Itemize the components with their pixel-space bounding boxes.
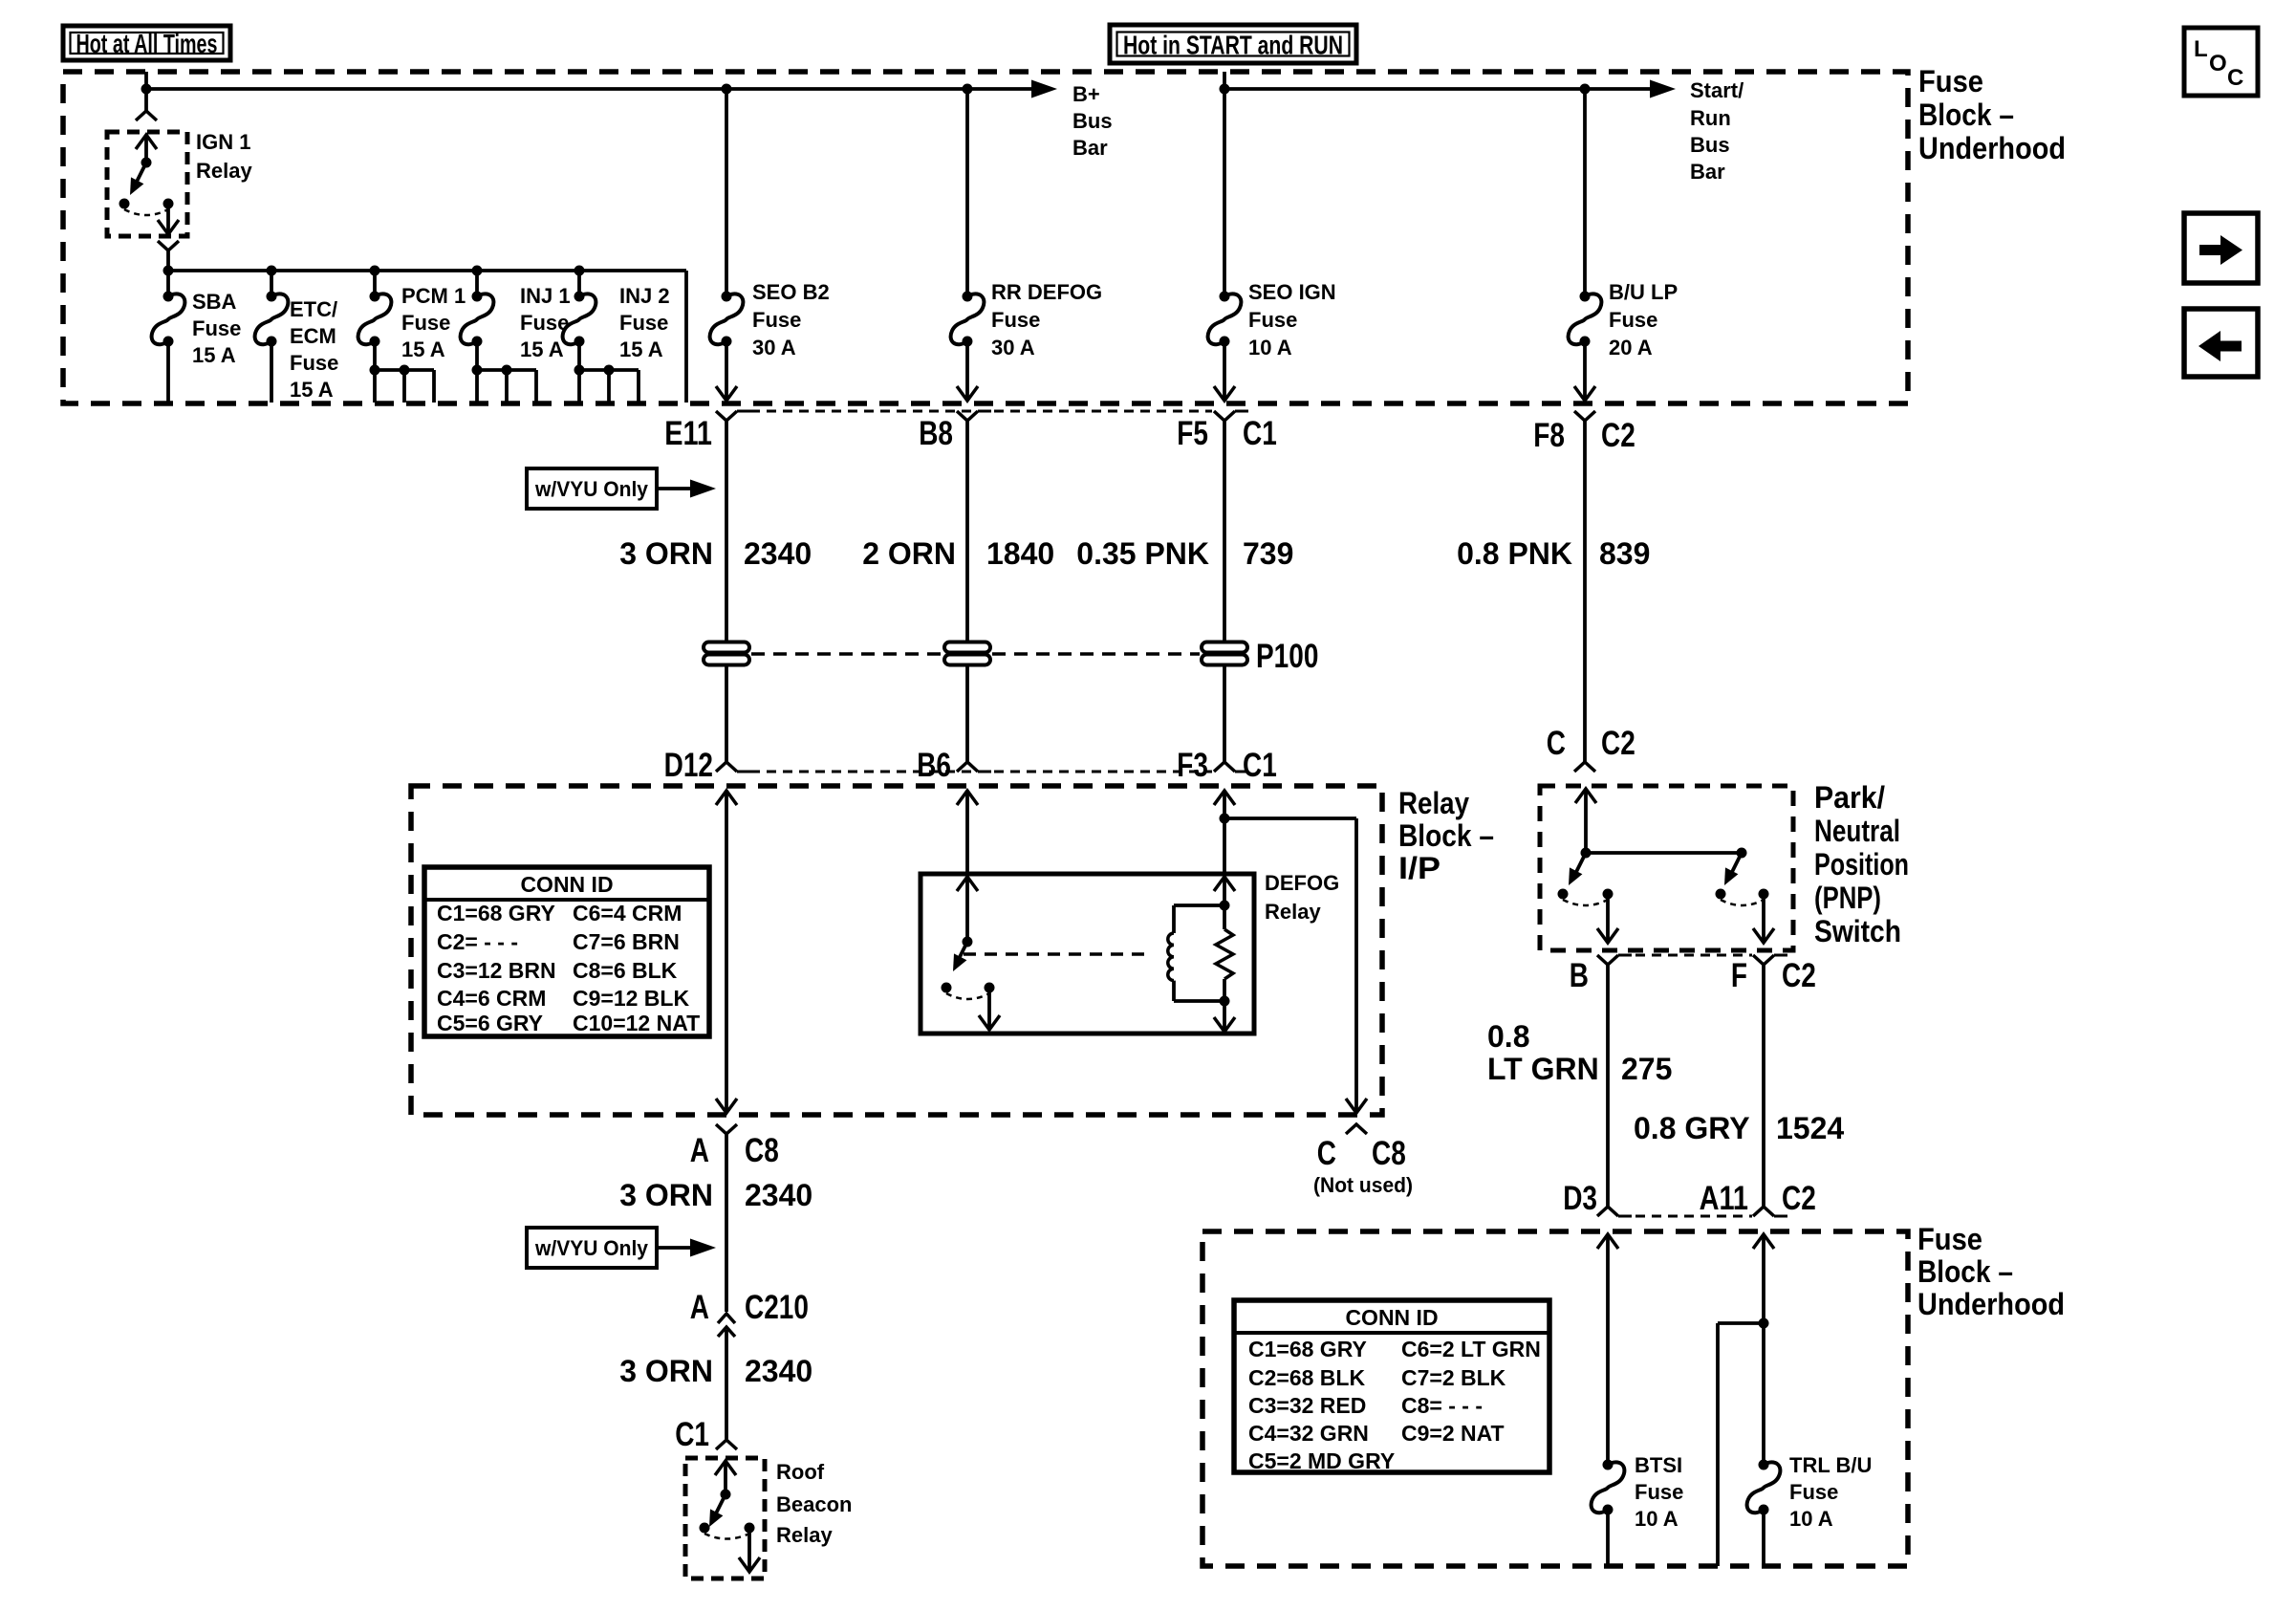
wire: SEO B2 fuse feed [725,89,728,296]
arrow: B+ bus bar end [1031,80,1057,98]
conn C210 inline (double chevron) [718,1314,735,1337]
wire: RR DEFOG fuse output [957,341,978,401]
svg-text:INJ 2: INJ 2 [619,284,670,308]
svg-text:0.8: 0.8 [1487,1019,1529,1054]
svg-text:Position: Position [1814,847,1909,882]
wire: PCM 1 fuse feed [373,271,377,296]
connector face dashed line (D3/A11) [1619,1215,1752,1218]
svg-text:C: C [1317,1135,1336,1172]
svg-text:Fuse: Fuse [991,308,1040,332]
label: Relay Block - I/P [1398,786,1494,885]
svg-text:SBA: SBA [192,290,237,314]
PNP left output [1597,894,1618,943]
wire: 739 to DEFOG relay [1223,791,1226,872]
label: ETC/ECM fuse [290,297,338,402]
svg-text:Relay: Relay [1398,786,1469,820]
wire: SEO B2 fuse output [716,341,737,401]
svg-text:ECM: ECM [290,324,336,348]
svg-text:BTSI: BTSI [1635,1453,1682,1477]
DEFOG switch pivot [963,937,973,947]
svg-text:C4=6 CRM: C4=6 CRM [437,986,546,1011]
wire: 1524 to TRL B/U fuse [1762,1234,1765,1465]
svg-text:Beacon: Beacon [776,1492,852,1516]
wire: branch to C C8 [1224,818,1356,1112]
wire: small fuse bus [168,271,686,403]
fuse SEO IGN 10 A [1208,292,1242,347]
svg-text:Hot at All Times: Hot at All Times [76,29,218,58]
wire: B/U LP fuse output [1574,341,1595,401]
grommet dashed link [751,652,1200,656]
svg-text:ETC/: ETC/ [290,297,337,321]
svg-text:Relay: Relay [776,1523,833,1547]
table: CONN ID (fuse block) [1234,1300,1549,1473]
svg-text:Fuse: Fuse [1917,1222,1982,1256]
label: PCM 1 fuse [401,284,466,361]
svg-text:F3: F3 [1177,747,1208,784]
label: Start/Run Bus Bar [1690,78,1744,184]
svg-text:15 A: 15 A [520,337,564,361]
svg-text:A11: A11 [1700,1180,1748,1217]
svg-text:Fuse: Fuse [752,308,801,332]
svg-text:Roof: Roof [776,1460,825,1484]
svg-text:CONN ID: CONN ID [520,872,613,897]
wire: 2340 through relay block [725,791,728,1112]
svg-text:275: 275 [1621,1052,1672,1086]
node: bus tap INJ 2 [574,266,585,276]
wire: BTSI fuse output [1606,1510,1610,1566]
label: DEFOG Relay [1265,871,1339,924]
label: B/U LP fuse [1609,280,1678,359]
svg-text:B6: B6 [917,747,951,784]
svg-text:10 A: 10 A [1789,1507,1833,1531]
svg-text:30 A: 30 A [752,336,796,359]
fuse block underhood (top) dashed border [63,72,1908,403]
svg-text:P100: P100 [1256,638,1318,675]
label: SBA fuse [192,290,241,367]
svg-text:Bar: Bar [1072,136,1108,160]
svg-text:Start/: Start/ [1690,78,1744,102]
svg-text:Underhood: Underhood [1917,1287,2065,1321]
svg-text:C2: C2 [1601,725,1635,762]
svg-text:C8=6 BLK: C8=6 BLK [573,958,678,983]
svg-text:C8: C8 [745,1132,779,1169]
label: Roof Beacon Relay [776,1460,852,1547]
connector face dashed line (top row) [750,410,1212,413]
label: 0.8 GRY | 1524 [1634,1111,1844,1145]
label: 0.8 PNK | 839 [1457,536,1650,571]
node: B+ bus junction at relay feed [141,84,152,95]
PNP pivot bar [1581,848,1747,859]
svg-text:3 ORN: 3 ORN [619,1178,713,1212]
label: pin B6 [917,747,951,784]
svg-text:1840: 1840 [986,536,1054,571]
svg-text:O: O [2209,51,2227,76]
svg-text:C5=2 MD GRY: C5=2 MD GRY [1248,1448,1395,1473]
svg-text:Switch: Switch [1814,914,1901,948]
svg-text:E11: E11 [664,415,712,452]
wire: circuit 739 (0.35 PNK) [1223,421,1226,762]
fuse INJ 1 15 A [461,292,494,347]
wire: B/U LP fuse feed [1583,89,1587,296]
label: pin C (C8) [1317,1135,1336,1172]
callout box: w/VYU Only (upper) [527,468,657,509]
label: conn C8 [745,1132,779,1169]
label: pin A11 [1700,1180,1748,1217]
svg-text:Hot in START and RUN: Hot in START and RUN [1123,31,1343,60]
svg-text:SEO B2: SEO B2 [752,280,830,304]
fuse B/U LP 20 A [1569,292,1602,347]
svg-text:C: C [1547,725,1566,762]
label: 3 ORN | 2340 [619,536,812,571]
arrow into DEFOG relay (switch) [957,877,978,942]
svg-text:C1: C1 [1243,415,1277,452]
PNP right output [1753,894,1774,943]
svg-text:839: 839 [1599,536,1650,571]
fuse block underhood (bottom) dashed border [1202,1231,1908,1566]
svg-text:C9=12 BLK: C9=12 BLK [573,986,689,1011]
svg-text:C2=68 BLK: C2=68 BLK [1248,1365,1365,1390]
label: conn C1 (roof beacon) [675,1416,709,1453]
svg-text:Fuse: Fuse [401,311,450,335]
callout box: w/VYU Only (lower) [527,1228,657,1268]
node: coil bottom [1220,996,1230,1007]
svg-text:C210: C210 [745,1289,809,1326]
svg-text:C5=6 GRY: C5=6 GRY [437,1011,543,1035]
node: bus tap PCM 1 [370,266,380,276]
conn F3/C1 male [1214,762,1248,772]
wire: feed from border (START/RUN) [1223,72,1226,296]
svg-text:IGN 1: IGN 1 [196,130,250,154]
svg-text:B8: B8 [919,415,953,452]
label: conn C2 (fuse block) [1782,1180,1816,1217]
roof beacon relay arm [709,1494,726,1527]
grommet P100 on 2340 [704,642,749,665]
label: (Not used) [1313,1173,1413,1197]
node: bus tap B/U LP [1580,84,1591,95]
fuse ETC/ECM 15 A [255,292,289,347]
svg-text:D3: D3 [1563,1180,1597,1217]
arrow into relay block (2340) [716,791,737,805]
fuse PCM 1 15 A [358,292,392,347]
svg-text:A: A [690,1289,709,1326]
wire: INJ 2 fuse feed [577,271,581,296]
svg-text:Fuse: Fuse [1918,64,1983,98]
PNP right switch arm [1724,853,1742,885]
svg-text:10 A: 10 A [1248,336,1292,359]
node: bus tap SEO B2 [722,84,732,95]
svg-text:0.8 GRY: 0.8 GRY [1634,1111,1750,1145]
node: Start/Run bus junction [1220,84,1230,95]
relay IGN 1 dashed box [107,132,187,236]
svg-text:Block –: Block – [1917,1254,2013,1289]
conn: male half below relay feed [136,111,157,120]
arrow into DEFOG relay (coil side) [1214,877,1235,905]
node: bus tap RR DEFOG [963,84,973,95]
fuse SEO B2 30 A [710,292,744,347]
label box: Hot at All Times [63,26,230,60]
wire: TRL B/U fuse output [1762,1510,1765,1566]
DEFOG mechanical link dashed [964,952,1153,956]
wire: INJ 2 fuse output comb [574,341,639,403]
arrow into relay block (1840) [957,791,978,805]
svg-text:F8: F8 [1533,417,1565,454]
svg-text:2340: 2340 [745,1354,812,1388]
arrow into roof beacon relay [715,1461,736,1494]
label: SEO IGN fuse [1248,280,1336,359]
IGN 1 relay switch arm [130,163,146,195]
svg-text:1524: 1524 [1776,1111,1844,1145]
PNP left contacts [1558,889,1614,906]
svg-text:15 A: 15 A [192,343,236,367]
svg-text:C1=68 GRY: C1=68 GRY [437,901,555,925]
label: 0.35 PNK | 739 [1076,536,1293,571]
fuse RR DEFOG 30 A [951,292,985,347]
roof beacon relay output [739,1528,760,1572]
relay block I/P dashed border [411,786,1382,1115]
svg-text:15 A: 15 A [619,337,663,361]
wire: PCM 1 fuse output comb [370,341,435,403]
svg-text:2 ORN: 2 ORN [862,536,956,571]
svg-text:C7=2 BLK: C7=2 BLK [1401,1365,1506,1390]
wire: circuit 2340 (3 ORN) [725,421,728,762]
svg-text:C3=32 RED: C3=32 RED [1248,1393,1366,1418]
svg-text:I/P: I/P [1398,851,1440,885]
roof beacon relay contacts [700,1523,755,1539]
table: CONN ID (relay block) [424,867,709,1036]
wire: SBA fuse feed [166,271,170,296]
label: conn C2 (PNP bottom) [1782,957,1816,994]
svg-text:B/U LP: B/U LP [1609,280,1678,304]
svg-text:C9=2 NAT: C9=2 NAT [1401,1421,1505,1446]
label: pin B [1570,957,1589,994]
svg-text:C3=12 BRN: C3=12 BRN [437,958,556,983]
svg-text:F5: F5 [1177,415,1208,452]
conn A/C8 female [716,1124,737,1312]
svg-text:L: L [2194,36,2208,62]
svg-text:w/VYU Only: w/VYU Only [534,1236,649,1260]
svg-text:Relay: Relay [196,159,252,183]
svg-text:C: C [2227,65,2243,91]
label: B+ Bus Bar [1072,82,1113,160]
svg-text:Underhood: Underhood [1918,131,2066,165]
svg-text:TRL B/U: TRL B/U [1789,1453,1872,1477]
svg-text:C6=2 LT GRN: C6=2 LT GRN [1401,1337,1541,1361]
label: conn C210 [745,1289,809,1326]
roof beacon relay pivot [721,1490,731,1500]
label: Fuse Block - Underhood (top) [1918,64,2066,165]
svg-text:3 ORN: 3 ORN [619,536,713,571]
svg-text:C2: C2 [1782,1180,1816,1217]
svg-text:LT GRN: LT GRN [1487,1052,1599,1086]
label: 3 ORN | 2340 (upper) [619,1178,812,1212]
label: BTSI fuse [1635,1453,1683,1531]
svg-text:INJ 1: INJ 1 [520,284,571,308]
fuse INJ 2 15 A [563,292,596,347]
svg-text:C2: C2 [1601,417,1635,454]
connector face dashed line (PNP bottom) [1619,954,1752,957]
svg-text:SEO IGN: SEO IGN [1248,280,1336,304]
fuse TRL B/U 10 A [1747,1460,1781,1515]
arrow into relay block (739) [1214,791,1235,805]
wire: 1840 to DEFOG relay [965,791,969,872]
conn E11 female [716,411,750,421]
svg-text:DEFOG: DEFOG [1265,871,1339,895]
callout arrow (lower) [657,1239,716,1257]
svg-text:C4=32 GRN: C4=32 GRN [1248,1421,1369,1446]
PNP right contacts [1716,889,1769,906]
label: conn C8 (not used) [1372,1135,1406,1172]
svg-text:B+: B+ [1072,82,1100,106]
label: pin F5 [1177,415,1208,452]
conn B8 female [957,411,991,421]
conn male above roof beacon relay [716,1440,737,1449]
svg-text:0.8 PNK: 0.8 PNK [1457,536,1572,571]
arrow into fuse block (275) [1597,1234,1618,1249]
label: Park/Neutral Position (PNP) Switch [1814,780,1909,948]
grommet P100 on 1840 [944,642,990,665]
svg-text:Bus: Bus [1072,109,1113,133]
svg-text:Park/: Park/ [1814,780,1885,815]
node: TRL branch junction [1759,1318,1769,1329]
wire: feed from border to IGN 1 relay [144,72,148,111]
wire: 275 to BTSI fuse [1606,1234,1610,1465]
svg-text:Fuse: Fuse [619,311,668,335]
svg-text:2340: 2340 [745,1178,812,1212]
svg-text:PCM 1: PCM 1 [401,284,466,308]
label: 3 ORN | 2340 (lower) [619,1354,812,1388]
wire: INJ 1 fuse feed [475,271,479,296]
svg-text:A: A [690,1132,709,1169]
label: 0.8 LT GRN | 275 [1487,1019,1672,1086]
wire: ETC/ECM fuse feed [270,271,273,296]
label box: Hot in START and RUN [1110,25,1356,63]
label: pin F [1731,957,1747,994]
node: bus tap ETC/ECM [267,266,277,276]
svg-text:Run: Run [1690,106,1731,130]
svg-text:(Not used): (Not used) [1313,1173,1413,1197]
svg-text:C8= - - -: C8= - - - [1401,1393,1483,1418]
wire: B+ bus bar [146,87,1032,91]
conn D3 male [1597,1207,1632,1216]
svg-text:0.35 PNK: 0.35 PNK [1076,536,1209,571]
label: conn C1 [1243,415,1277,452]
conn C/C2 male [1574,762,1595,772]
svg-text:15 A: 15 A [290,378,334,402]
conn B6 male [957,762,991,772]
label: INJ 2 fuse [619,284,670,361]
svg-text:Fuse: Fuse [520,311,569,335]
conn C/C8 male (not used) [1346,1124,1367,1134]
svg-text:Fuse: Fuse [1789,1480,1838,1504]
svg-text:B: B [1570,957,1589,994]
wire: RR DEFOG fuse feed [965,89,969,296]
wire: SEO IGN fuse output [1214,341,1235,401]
svg-text:Fuse: Fuse [1635,1480,1683,1504]
conn A11/C2 male [1753,1207,1787,1216]
relay Roof Beacon dashed box [685,1458,765,1578]
svg-text:2340: 2340 [744,536,812,571]
label: 2 ORN | 1840 [862,536,1054,571]
fuse SBA 15 A [152,292,185,347]
label: INJ 1 fuse [520,284,571,361]
PNP left switch arm [1569,853,1586,885]
svg-text:Block –: Block – [1398,818,1494,853]
conn F5/C1 female [1214,411,1248,421]
label: TRL B/U fuse [1789,1453,1872,1531]
DEFOG coil output [1214,905,1235,1032]
svg-text:Relay: Relay [1265,900,1321,924]
svg-text:CONN ID: CONN ID [1345,1305,1438,1330]
label: pin E11 [664,415,712,452]
DEFOG switch contacts [942,983,995,1000]
back arrow box [2184,309,2258,377]
svg-text:F: F [1731,957,1747,994]
svg-text:Bar: Bar [1690,160,1725,184]
DEFOG switch arm [953,942,967,971]
svg-text:RR DEFOG: RR DEFOG [991,280,1102,304]
label: SEO B2 fuse [752,280,830,359]
label: pin F8 [1533,417,1565,454]
svg-text:3 ORN: 3 ORN [619,1354,713,1388]
conn D12 male [716,762,750,772]
node: coil top [1220,901,1230,911]
label: pin D12 [664,747,713,784]
svg-text:Neutral: Neutral [1814,814,1900,848]
wire: 2340 to roof beacon relay [725,1330,728,1439]
node: bus tap INJ 1 [472,266,483,276]
svg-text:w/VYU Only: w/VYU Only [534,477,649,501]
svg-text:C1: C1 [675,1416,709,1453]
IGN 1 relay output wire [158,204,179,234]
svg-text:Bus: Bus [1690,133,1730,157]
IGN 1 relay switch pivot [141,158,152,168]
relay DEFOG box [921,874,1254,1034]
svg-text:Fuse: Fuse [192,316,241,340]
svg-text:Fuse: Fuse [1248,308,1297,332]
label: pin F3 [1177,747,1208,784]
svg-text:(PNP): (PNP) [1814,881,1881,915]
arrow out of relay block (C8 branch) [1346,1099,1367,1113]
arrow out of relay block (2340) [716,1099,737,1113]
svg-text:30 A: 30 A [991,336,1035,359]
svg-text:C8: C8 [1372,1135,1406,1172]
IGN 1 relay contacts [119,199,174,216]
svg-text:C1=68 GRY: C1=68 GRY [1248,1337,1367,1361]
wire: circuit 1840 (2 ORN) [965,421,969,762]
wire: Start/Run bus bar [1224,87,1650,91]
label: conn C2 [1601,417,1635,454]
label: pin B8 [919,415,953,452]
conn B female [1597,955,1632,1207]
svg-text:Fuse: Fuse [1609,308,1657,332]
svg-text:C10=12 NAT: C10=12 NAT [573,1011,700,1035]
label: pin A (C210) [690,1289,709,1326]
svg-text:C2= - - -: C2= - - - [437,929,518,954]
wire: circuit 839 (0.8 PNK) [1583,421,1587,762]
label: RR DEFOG fuse [991,280,1102,359]
DEFOG switch output [979,988,1000,1030]
arrow into fuse block (1524) [1753,1234,1774,1249]
label: conn C2 (PNP) [1601,725,1635,762]
svg-text:Fuse: Fuse [290,351,338,375]
wire: SBA fuse output [166,341,170,403]
label: pin C (C2) [1547,725,1566,762]
svg-text:D12: D12 [664,747,713,784]
callout arrow (upper) [657,480,716,498]
svg-text:10 A: 10 A [1635,1507,1679,1531]
svg-text:20 A: 20 A [1609,336,1653,359]
label: Fuse Block - Underhood (bottom) [1917,1222,2065,1321]
